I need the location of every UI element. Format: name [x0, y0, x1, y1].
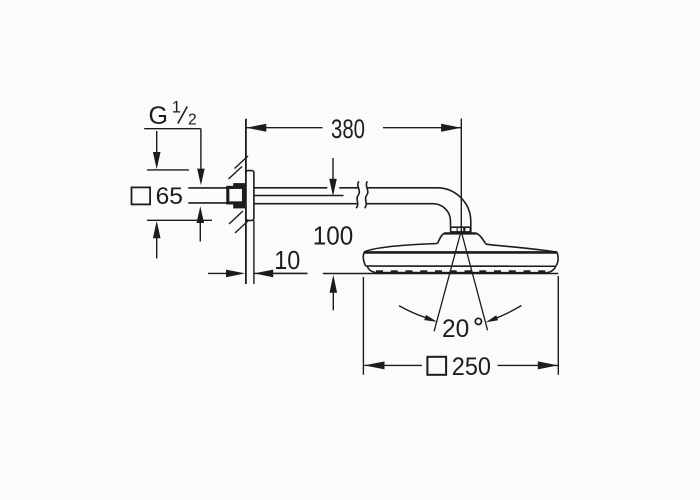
flange bar upper — [234, 184, 246, 188]
head band right cap — [556, 252, 558, 266]
square symbol 65 — [132, 187, 151, 204]
svg-text:20: 20 — [442, 316, 469, 343]
square fitting — [228, 187, 244, 203]
degree circle — [475, 318, 481, 324]
wall hatch upper B — [235, 156, 249, 169]
head boss left side — [438, 233, 445, 243]
arm elbow outer — [437, 188, 471, 227]
head band top line — [364, 251, 557, 254]
flange bar lower — [234, 204, 246, 208]
dimension 10 arrows — [208, 272, 308, 274]
svg-text:1: 1 — [172, 98, 181, 116]
svg-text:65: 65 — [156, 183, 183, 210]
angle arrow right — [497, 306, 522, 318]
head band bottom line — [366, 265, 556, 267]
svg-text:250: 250 — [452, 353, 491, 381]
svg-text:10: 10 — [274, 247, 300, 275]
svg-text:100: 100 — [313, 222, 353, 250]
head boss right side — [477, 233, 487, 244]
svg-text:G: G — [149, 102, 168, 130]
svg-text:2: 2 — [188, 112, 197, 129]
shower arm top edge — [254, 187, 437, 189]
break squiggle left — [356, 181, 359, 208]
svg-text:380: 380 — [331, 114, 365, 144]
angle 20 deg right line — [461, 232, 487, 331]
angle arrow left — [399, 306, 426, 318]
head band left cap — [363, 252, 365, 266]
connector nut — [450, 226, 472, 232]
square symbol 250 — [427, 357, 446, 375]
spray plate — [367, 266, 556, 272]
wall hatch lower D — [235, 220, 249, 233]
nozzle dashes — [376, 270, 545, 274]
wall hatch upper A — [229, 167, 243, 180]
dimension 65 extension lines — [147, 170, 212, 220]
wall line — [245, 119, 247, 284]
head top cover left — [364, 244, 437, 252]
shower arm bottom edge — [254, 203, 433, 205]
head boss top — [444, 232, 477, 234]
plate front extension line — [253, 221, 255, 285]
G 1/2 leader — [144, 129, 201, 242]
dimension 250 extension lines — [363, 276, 558, 375]
spray face reference line — [254, 272, 558, 274]
arm elbow inner — [433, 204, 451, 227]
shower arm middle line — [254, 195, 344, 197]
dimension 65 arrows — [156, 131, 158, 259]
angle 20 deg left line — [434, 232, 461, 332]
dimension 100 arrows — [332, 158, 334, 310]
break squiggle right — [365, 181, 368, 208]
escutcheon plate — [246, 171, 254, 221]
head top cover right — [486, 244, 557, 252]
dimension 380 — [246, 119, 461, 233]
dimension 250 line — [364, 364, 558, 366]
wall hatch lower C — [229, 211, 243, 224]
inlet stub pipe G1/2 — [188, 188, 227, 203]
label G 1/2 — [149, 98, 197, 130]
